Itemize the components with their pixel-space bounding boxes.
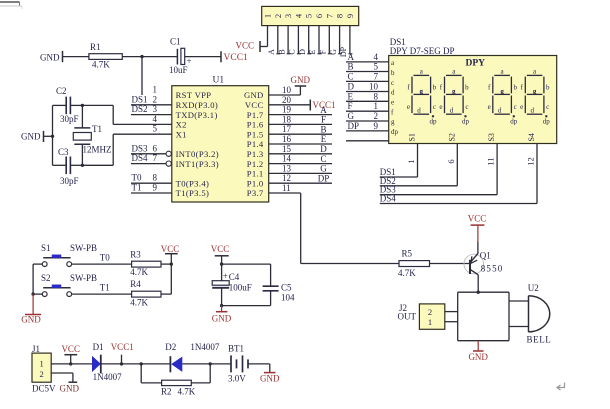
svg-text:DS2: DS2: [132, 104, 148, 114]
svg-text:T1(P3.5): T1(P3.5): [176, 188, 210, 198]
svg-text:9: 9: [374, 121, 379, 131]
svg-text:OUT: OUT: [398, 311, 417, 321]
svg-text:2: 2: [428, 307, 432, 317]
svg-text:4: 4: [374, 52, 379, 62]
svg-text:9: 9: [345, 14, 355, 18]
svg-text:P1.2: P1.2: [247, 159, 264, 169]
svg-text:b: b: [433, 84, 437, 92]
svg-text:c: c: [546, 103, 549, 111]
svg-text:3: 3: [283, 14, 293, 18]
svg-text:A: A: [320, 105, 327, 115]
svg-text:12: 12: [526, 157, 536, 166]
svg-text:6: 6: [446, 159, 456, 163]
svg-text:10: 10: [282, 85, 292, 95]
svg-text:DS1: DS1: [132, 94, 148, 104]
svg-text:D: D: [298, 49, 307, 55]
svg-text:P1.6: P1.6: [247, 120, 264, 130]
svg-text:C: C: [348, 71, 354, 81]
svg-text:4.7K: 4.7K: [130, 297, 148, 307]
svg-text:b: b: [546, 84, 550, 92]
svg-text:4: 4: [293, 13, 303, 18]
svg-text:U2: U2: [528, 283, 539, 293]
svg-text:2: 2: [374, 111, 379, 121]
svg-text:P1.0: P1.0: [247, 178, 264, 188]
svg-text:e: e: [488, 103, 491, 111]
svg-text:8550: 8550: [481, 264, 504, 274]
svg-text:104: 104: [281, 293, 295, 303]
svg-text:11: 11: [282, 183, 291, 193]
svg-text:BT1: BT1: [228, 344, 244, 354]
svg-text:B: B: [320, 124, 326, 134]
svg-text:R4: R4: [130, 279, 141, 289]
svg-text:dp: dp: [510, 118, 518, 126]
svg-text:A: A: [348, 52, 355, 62]
svg-text:1: 1: [374, 101, 379, 111]
svg-text:C: C: [320, 154, 326, 164]
svg-text:TXD(P3.1): TXD(P3.1): [176, 110, 218, 120]
svg-text:S2: S2: [447, 133, 456, 141]
svg-text:d: d: [391, 89, 395, 97]
svg-text:R2: R2: [161, 387, 172, 397]
svg-text:dp: dp: [462, 118, 470, 126]
svg-text:10: 10: [369, 82, 379, 92]
svg-text:+: +: [223, 271, 228, 281]
svg-text:P3.7: P3.7: [247, 188, 264, 198]
svg-text:e: e: [391, 99, 394, 107]
svg-text:8: 8: [374, 91, 379, 101]
svg-text:D: D: [348, 82, 355, 92]
svg-text:b: b: [391, 69, 395, 77]
svg-text:dp: dp: [391, 128, 399, 136]
svg-text:C2: C2: [56, 86, 67, 96]
svg-text:DP: DP: [318, 173, 330, 183]
svg-text:INT0(P3.2): INT0(P3.2): [176, 149, 219, 159]
svg-text:6: 6: [314, 14, 324, 18]
svg-text:VCC: VCC: [61, 344, 80, 354]
svg-text:d: d: [531, 107, 535, 115]
svg-text:X1: X1: [176, 129, 187, 139]
svg-text:8: 8: [153, 173, 158, 183]
svg-text:X2: X2: [176, 120, 187, 130]
svg-text:Q1: Q1: [480, 251, 491, 261]
svg-text:T1: T1: [132, 183, 142, 193]
svg-text:7: 7: [153, 153, 158, 163]
svg-text:A: A: [267, 49, 276, 55]
svg-text:1: 1: [263, 14, 273, 18]
svg-text:b: b: [465, 84, 469, 92]
svg-text:DPY: DPY: [466, 59, 486, 69]
svg-text:7: 7: [324, 14, 334, 18]
svg-text:VCC: VCC: [245, 100, 264, 110]
svg-text:F: F: [321, 115, 326, 125]
svg-text:GND: GND: [40, 52, 60, 62]
svg-text:12: 12: [282, 173, 291, 183]
svg-text:J1: J1: [32, 344, 40, 354]
svg-text:C4: C4: [229, 272, 240, 282]
svg-text:14: 14: [282, 154, 292, 164]
svg-text:GND: GND: [291, 75, 311, 85]
svg-text:c: c: [433, 103, 436, 111]
svg-text:1: 1: [428, 317, 432, 327]
svg-text:c: c: [391, 79, 394, 87]
svg-text:S1: S1: [408, 133, 417, 141]
svg-text:C: C: [288, 49, 297, 54]
svg-text:1: 1: [39, 359, 43, 369]
svg-text:GND: GND: [21, 315, 41, 325]
svg-text:e: e: [439, 103, 442, 111]
svg-text:VCC1: VCC1: [224, 53, 249, 63]
svg-text:c: c: [465, 103, 468, 111]
svg-text:G: G: [329, 49, 338, 55]
svg-text:6: 6: [153, 143, 158, 153]
svg-text:R1: R1: [90, 42, 101, 52]
svg-text:dp: dp: [543, 118, 551, 126]
svg-text:DS3: DS3: [132, 143, 149, 153]
svg-text:9: 9: [153, 183, 158, 193]
svg-text:GND: GND: [260, 373, 280, 383]
svg-text:18: 18: [282, 114, 292, 124]
svg-text:P1.4: P1.4: [247, 139, 264, 149]
svg-text:E: E: [348, 91, 354, 101]
svg-text:DP: DP: [348, 121, 360, 131]
svg-text:T0: T0: [132, 173, 142, 183]
svg-text:S2: S2: [41, 273, 51, 283]
svg-text:dp: dp: [430, 118, 438, 126]
svg-text:1N4007: 1N4007: [190, 342, 219, 352]
svg-text:T0(P3.4): T0(P3.4): [176, 178, 210, 188]
svg-text:1: 1: [406, 159, 416, 163]
svg-text:DS4: DS4: [380, 194, 397, 204]
svg-text:VCC: VCC: [235, 41, 254, 51]
svg-text:P1.5: P1.5: [247, 129, 264, 139]
svg-text:RST VPP: RST VPP: [176, 90, 212, 100]
svg-text:1N4007: 1N4007: [93, 372, 122, 382]
svg-text:b: b: [513, 84, 517, 92]
svg-text:GND: GND: [244, 90, 264, 100]
svg-text:16: 16: [282, 134, 292, 144]
svg-text:VCC: VCC: [211, 244, 230, 254]
svg-text:g: g: [391, 118, 395, 126]
svg-text:4.7K: 4.7K: [130, 267, 148, 277]
svg-text:7: 7: [374, 71, 379, 81]
svg-text:10uF: 10uF: [169, 65, 188, 75]
svg-text:E: E: [308, 49, 317, 54]
svg-text:R3: R3: [130, 250, 141, 260]
svg-text:F: F: [319, 49, 328, 54]
svg-text:5: 5: [153, 124, 158, 134]
svg-text:SW-PB: SW-PB: [70, 273, 97, 283]
svg-text:INT1(P3.3): INT1(P3.3): [176, 159, 219, 169]
svg-text:e: e: [407, 103, 410, 111]
svg-text:VCC: VCC: [468, 214, 487, 224]
svg-text:5: 5: [374, 62, 379, 72]
svg-text:G: G: [320, 164, 327, 174]
svg-text:12MHZ: 12MHZ: [83, 145, 112, 155]
svg-text:P1.1: P1.1: [247, 169, 264, 179]
svg-text:8: 8: [335, 14, 345, 18]
svg-text:S1: S1: [41, 243, 51, 253]
svg-text:e: e: [520, 103, 523, 111]
svg-text:T1: T1: [92, 124, 102, 134]
svg-text:D: D: [320, 144, 327, 154]
svg-text:15: 15: [282, 144, 292, 154]
svg-text:30pF: 30pF: [60, 176, 79, 186]
svg-text:C5: C5: [281, 283, 292, 293]
svg-text:G: G: [348, 111, 355, 121]
svg-text:30pF: 30pF: [60, 114, 79, 124]
svg-text:DC5V: DC5V: [32, 383, 56, 393]
svg-text:BELL: BELL: [527, 335, 552, 345]
svg-text:4.7K: 4.7K: [178, 387, 196, 397]
svg-text:GND: GND: [21, 132, 41, 142]
svg-text:F: F: [348, 101, 353, 111]
svg-text:19: 19: [282, 105, 292, 115]
svg-text:VCC: VCC: [161, 244, 180, 254]
svg-text:2: 2: [39, 369, 43, 379]
svg-text:D1: D1: [93, 342, 104, 352]
svg-text:c: c: [514, 103, 517, 111]
svg-text:P1.3: P1.3: [247, 149, 264, 159]
svg-text:2: 2: [273, 14, 283, 18]
svg-text:VCC1: VCC1: [111, 342, 134, 352]
svg-text:T0: T0: [100, 253, 110, 263]
svg-text:SW-PB: SW-PB: [70, 243, 97, 253]
svg-text:13: 13: [282, 163, 292, 173]
svg-text:100uF: 100uF: [229, 282, 252, 292]
svg-text:P1.7: P1.7: [247, 110, 264, 120]
svg-text:S3: S3: [487, 133, 496, 141]
svg-text:S4: S4: [527, 133, 536, 141]
svg-text:d: d: [417, 107, 421, 115]
svg-text:3: 3: [153, 104, 158, 114]
svg-text:T1: T1: [100, 283, 110, 293]
svg-text:4: 4: [153, 114, 158, 124]
svg-text:2: 2: [153, 94, 158, 104]
svg-text:3.0V: 3.0V: [228, 373, 246, 383]
svg-text:GND: GND: [60, 383, 80, 393]
svg-text:d: d: [450, 107, 454, 115]
svg-text:U1: U1: [213, 76, 225, 86]
svg-text:C1: C1: [170, 37, 181, 47]
svg-text:GND: GND: [468, 352, 488, 362]
svg-text:GND: GND: [212, 314, 232, 324]
svg-text:RXD(P3.0): RXD(P3.0): [176, 100, 219, 110]
svg-text:4.7K: 4.7K: [398, 268, 416, 278]
svg-text:E: E: [321, 134, 327, 144]
svg-text:DS4: DS4: [132, 153, 149, 163]
svg-text:d: d: [498, 107, 502, 115]
svg-text:D2: D2: [165, 342, 176, 352]
svg-text:11: 11: [486, 157, 496, 165]
svg-text:B: B: [348, 62, 354, 72]
svg-text:R5: R5: [402, 249, 413, 259]
svg-text:17: 17: [282, 124, 292, 134]
svg-text:B: B: [277, 49, 286, 54]
svg-text:C3: C3: [58, 147, 69, 157]
svg-text:4.7K: 4.7K: [92, 60, 110, 70]
svg-text:5: 5: [304, 14, 314, 18]
svg-text:DPY D7-SEG DP: DPY D7-SEG DP: [390, 46, 455, 56]
svg-text:1: 1: [153, 85, 158, 95]
svg-text:20: 20: [282, 95, 292, 105]
